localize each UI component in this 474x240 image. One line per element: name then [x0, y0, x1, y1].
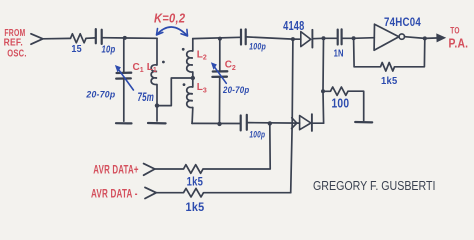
svg-text:1N: 1N: [334, 49, 344, 60]
svg-text:100p: 100p: [249, 42, 266, 52]
svg-text:1k5: 1k5: [186, 202, 205, 214]
svg-text:1k5: 1k5: [381, 75, 398, 87]
svg-text:GREGORY F. GUSBERTI: GREGORY F. GUSBERTI: [313, 178, 436, 193]
svg-text:AVR DATA+: AVR DATA+: [93, 162, 138, 176]
svg-text:10p: 10p: [102, 44, 116, 55]
svg-text:1k5: 1k5: [187, 177, 204, 189]
svg-text:100: 100: [332, 96, 350, 110]
svg-text:TO: TO: [450, 25, 460, 35]
svg-text:75m: 75m: [138, 92, 155, 104]
svg-text:74HC04: 74HC04: [384, 15, 421, 29]
svg-text:OSC.: OSC.: [7, 49, 26, 60]
svg-text:100p: 100p: [249, 129, 265, 139]
svg-text:20-70p: 20-70p: [85, 90, 115, 101]
svg-text:AVR DATA -: AVR DATA -: [91, 186, 138, 200]
svg-text:20-70p: 20-70p: [222, 85, 249, 96]
svg-text:4148: 4148: [283, 18, 304, 33]
svg-text:K=0,2: K=0,2: [154, 11, 186, 26]
svg-text:REF.: REF.: [4, 38, 23, 49]
svg-text:15: 15: [71, 44, 82, 55]
svg-text:P.A.: P.A.: [449, 37, 469, 51]
